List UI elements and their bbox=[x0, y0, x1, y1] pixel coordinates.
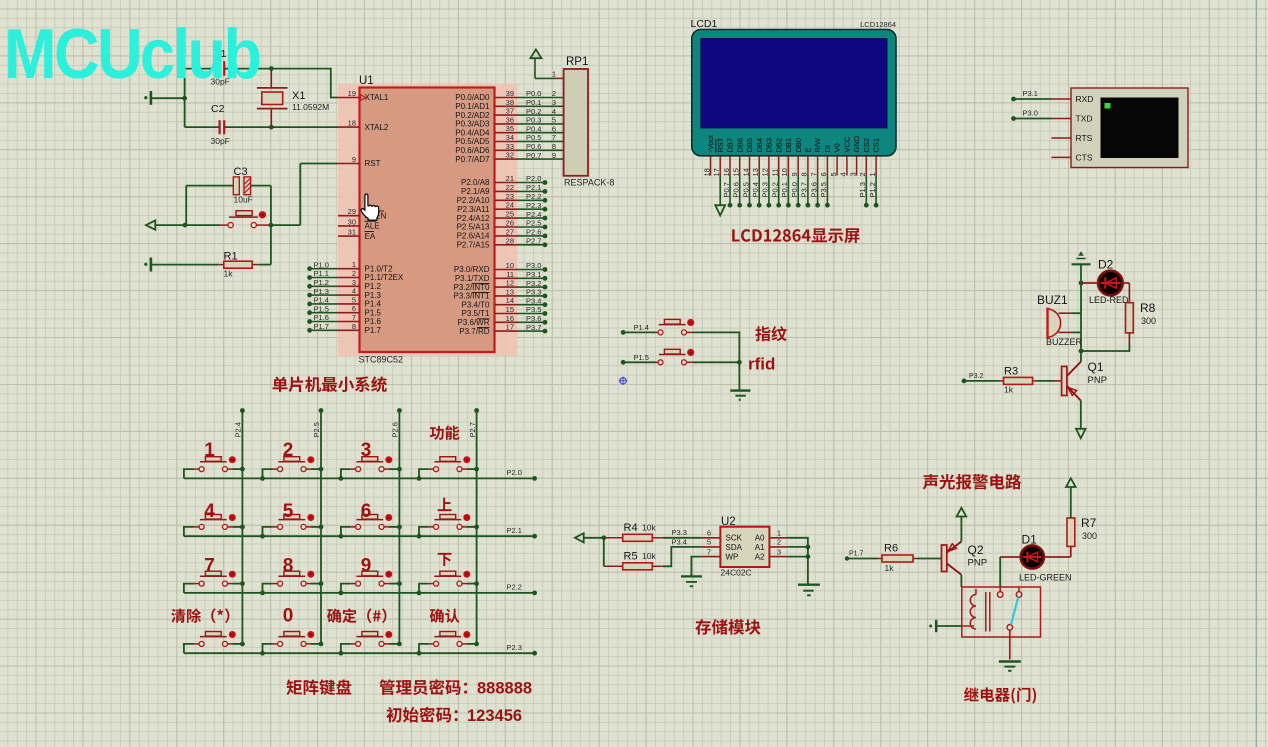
svg-text:P0.1: P0.1 bbox=[526, 98, 541, 107]
svg-text:LED-RED: LED-RED bbox=[1089, 295, 1129, 305]
svg-text:1: 1 bbox=[552, 70, 556, 79]
node bbox=[319, 581, 324, 586]
power flag bbox=[1066, 478, 1076, 487]
mcu U1 body bbox=[360, 88, 495, 353]
svg-text:WP: WP bbox=[726, 553, 739, 562]
svg-text:DB5: DB5 bbox=[745, 138, 754, 153]
node bbox=[1079, 281, 1084, 286]
label bbox=[964, 687, 1036, 703]
svg-text:P1.7: P1.7 bbox=[314, 322, 329, 331]
node bbox=[260, 651, 265, 656]
svg-text:P0.7: P0.7 bbox=[526, 151, 541, 160]
wire bbox=[694, 332, 740, 362]
arrow terminal bbox=[146, 220, 155, 229]
wire bbox=[389, 643, 399, 645]
svg-text:P3.5: P3.5 bbox=[526, 305, 541, 314]
svg-text:30: 30 bbox=[348, 217, 356, 226]
svg-text:8: 8 bbox=[352, 322, 356, 331]
node bbox=[339, 651, 344, 656]
wire bbox=[184, 527, 194, 536]
label bbox=[273, 376, 387, 392]
button key 4 bbox=[194, 526, 199, 528]
svg-text:DB3: DB3 bbox=[765, 138, 774, 153]
svg-text:P2.0: P2.0 bbox=[526, 174, 541, 183]
svg-text:1: 1 bbox=[352, 260, 356, 269]
svg-text:rfid: rfid bbox=[748, 355, 775, 374]
wire bbox=[184, 477, 535, 479]
button key 1 bbox=[194, 468, 199, 470]
button fingerprint bbox=[656, 331, 658, 333]
svg-text:24: 24 bbox=[506, 201, 514, 210]
svg-text:R/W: R/W bbox=[813, 137, 822, 153]
wire bbox=[738, 362, 740, 390]
svg-text:6: 6 bbox=[352, 304, 356, 313]
svg-text:28: 28 bbox=[506, 236, 514, 245]
label bbox=[386, 707, 457, 723]
svg-text:2: 2 bbox=[777, 538, 781, 547]
node bbox=[269, 125, 274, 130]
wire bbox=[1044, 556, 1071, 558]
svg-text:P2.7/A15: P2.7/A15 bbox=[457, 241, 490, 250]
svg-text:P1.4: P1.4 bbox=[634, 323, 649, 332]
svg-text:P0.0: P0.0 bbox=[526, 89, 541, 98]
svg-text:P3.6/WR: P3.6/WR bbox=[457, 318, 489, 327]
wire bbox=[185, 68, 219, 70]
wire bbox=[320, 411, 322, 644]
svg-text:3: 3 bbox=[848, 172, 857, 176]
svg-text:DB4: DB4 bbox=[755, 138, 764, 153]
svg-text:14: 14 bbox=[506, 296, 514, 305]
svg-text:P0.5: P0.5 bbox=[741, 182, 750, 197]
svg-text:9: 9 bbox=[361, 556, 372, 577]
wire bbox=[389, 526, 399, 528]
resistor R7 bbox=[1067, 518, 1075, 546]
wire bbox=[311, 583, 321, 585]
capacitor C1 bbox=[219, 61, 221, 75]
resistor R8 bbox=[1126, 303, 1134, 333]
svg-text:P0.4: P0.4 bbox=[751, 182, 760, 197]
wire bbox=[185, 186, 187, 226]
wire bbox=[603, 538, 605, 567]
svg-text:RESPACK-8: RESPACK-8 bbox=[564, 178, 614, 188]
svg-text:VCC: VCC bbox=[843, 136, 852, 152]
node bbox=[182, 96, 187, 101]
node bbox=[474, 525, 479, 530]
svg-text:SDA: SDA bbox=[726, 543, 743, 552]
svg-text:12: 12 bbox=[761, 168, 770, 176]
svg-text:27: 27 bbox=[506, 227, 514, 236]
svg-text:P1.5: P1.5 bbox=[634, 353, 649, 362]
svg-text:P3.6: P3.6 bbox=[526, 314, 541, 323]
svg-text:5: 5 bbox=[352, 295, 356, 304]
svg-text:A1: A1 bbox=[755, 543, 765, 552]
node bbox=[319, 525, 324, 530]
svg-text:P0.3: P0.3 bbox=[761, 182, 770, 197]
svg-text:35: 35 bbox=[506, 124, 514, 133]
svg-text:16: 16 bbox=[506, 314, 514, 323]
svg-text:32: 32 bbox=[506, 151, 514, 160]
capacitor C2 bbox=[219, 120, 221, 134]
wire bbox=[623, 331, 655, 333]
resistor R6 bbox=[878, 558, 882, 560]
svg-text:P0.2/AD2: P0.2/AD2 bbox=[455, 111, 490, 120]
svg-text:P3.2: P3.2 bbox=[526, 279, 541, 288]
svg-text:P3.1: P3.1 bbox=[1023, 89, 1038, 98]
svg-text:P2.5/A13: P2.5/A13 bbox=[457, 223, 490, 232]
svg-text:P0.5: P0.5 bbox=[526, 133, 541, 142]
svg-text:X1: X1 bbox=[292, 90, 305, 102]
label bbox=[430, 609, 460, 623]
svg-text:2: 2 bbox=[283, 440, 294, 461]
svg-text:V0: V0 bbox=[833, 143, 842, 152]
svg-text:R7: R7 bbox=[1081, 516, 1097, 530]
node bbox=[339, 476, 344, 481]
led D1 bbox=[1021, 545, 1044, 568]
svg-text:0: 0 bbox=[283, 606, 294, 627]
svg-text:25: 25 bbox=[506, 210, 514, 219]
svg-text:17: 17 bbox=[712, 168, 721, 176]
svg-text:P1.4: P1.4 bbox=[365, 300, 382, 309]
wire bbox=[584, 537, 604, 539]
wire bbox=[467, 468, 477, 470]
svg-text:RST: RST bbox=[716, 137, 725, 152]
svg-text:P1.0: P1.0 bbox=[314, 260, 329, 269]
svg-text:E: E bbox=[804, 147, 813, 152]
wire bbox=[419, 584, 429, 593]
node bbox=[319, 408, 324, 413]
svg-text:888888: 888888 bbox=[477, 680, 532, 698]
svg-text:-Vout: -Vout bbox=[706, 134, 715, 152]
ground bbox=[715, 205, 725, 215]
node bbox=[260, 591, 265, 596]
svg-text:6: 6 bbox=[707, 529, 711, 538]
label bbox=[286, 679, 351, 695]
wire bbox=[311, 468, 321, 470]
svg-text:11: 11 bbox=[506, 270, 514, 279]
node bbox=[417, 591, 422, 596]
wire bbox=[233, 583, 243, 585]
button key 6 bbox=[351, 526, 356, 528]
svg-text:P2.7: P2.7 bbox=[526, 237, 541, 246]
wire bbox=[271, 224, 300, 226]
node bbox=[806, 554, 811, 559]
svg-text:P3.6: P3.6 bbox=[809, 182, 818, 197]
wire bbox=[1123, 282, 1130, 284]
node bbox=[532, 651, 537, 656]
svg-text:U1: U1 bbox=[359, 75, 374, 87]
svg-text:DB7: DB7 bbox=[726, 138, 735, 153]
ground bbox=[730, 389, 750, 391]
svg-text:CS2: CS2 bbox=[862, 138, 871, 153]
svg-text:P2.2: P2.2 bbox=[507, 583, 522, 592]
node bbox=[339, 591, 344, 596]
svg-text:P2.0: P2.0 bbox=[507, 468, 522, 477]
svg-text:P3.4/T0: P3.4/T0 bbox=[461, 300, 490, 309]
svg-text:BUZ1: BUZ1 bbox=[1037, 293, 1068, 307]
node bbox=[260, 476, 265, 481]
svg-text:STC89C52: STC89C52 bbox=[359, 355, 404, 365]
ground bbox=[798, 584, 820, 586]
svg-text:P1.7: P1.7 bbox=[849, 551, 864, 558]
transistor Q2 bbox=[942, 545, 947, 572]
arrow terminal bbox=[575, 533, 584, 542]
svg-text:P2.5: P2.5 bbox=[312, 422, 321, 437]
svg-text:P1.2: P1.2 bbox=[365, 282, 382, 291]
svg-text:P0.7: P0.7 bbox=[722, 182, 731, 197]
svg-text:P3.0: P3.0 bbox=[1023, 109, 1038, 118]
svg-text:P2.2/A10: P2.2/A10 bbox=[457, 196, 490, 205]
label bbox=[732, 228, 859, 243]
svg-text:P2.4: P2.4 bbox=[526, 210, 541, 219]
svg-text:R8: R8 bbox=[1140, 301, 1156, 315]
node bbox=[474, 642, 479, 647]
svg-text:P2.6/A14: P2.6/A14 bbox=[457, 232, 490, 241]
svg-text:R5: R5 bbox=[624, 551, 638, 563]
svg-text:P3.0/RXD: P3.0/RXD bbox=[454, 265, 490, 274]
svg-text:8: 8 bbox=[283, 556, 294, 577]
svg-text:RXD: RXD bbox=[1076, 94, 1094, 104]
svg-text:39: 39 bbox=[506, 89, 514, 98]
relay RL1 bbox=[962, 587, 1041, 637]
node bbox=[397, 408, 402, 413]
node bbox=[474, 408, 479, 413]
wire bbox=[1009, 630, 1011, 659]
svg-text:P1.2: P1.2 bbox=[314, 278, 329, 287]
svg-text:P0.1/AD1: P0.1/AD1 bbox=[455, 102, 490, 111]
svg-text:4: 4 bbox=[204, 501, 215, 522]
svg-text:P1.1: P1.1 bbox=[314, 269, 329, 278]
button key 7 bbox=[194, 583, 199, 585]
window edge bbox=[1255, 0, 1257, 747]
button key 上 bbox=[429, 526, 434, 528]
svg-text:Q1: Q1 bbox=[1088, 360, 1104, 374]
wire bbox=[233, 526, 243, 528]
svg-text:13: 13 bbox=[506, 287, 514, 296]
wire bbox=[694, 361, 740, 363]
svg-text:C2: C2 bbox=[211, 103, 225, 115]
wire bbox=[1000, 556, 1020, 558]
wire bbox=[184, 652, 535, 654]
svg-text:P1.7: P1.7 bbox=[365, 326, 382, 335]
button key 9 bbox=[351, 583, 356, 585]
label bbox=[171, 608, 229, 623]
respack RP1 bbox=[564, 69, 588, 176]
svg-text:P3.3: P3.3 bbox=[672, 528, 687, 537]
wire bbox=[918, 558, 942, 560]
wire bbox=[263, 584, 273, 593]
svg-text:P0.5/AD5: P0.5/AD5 bbox=[455, 137, 490, 146]
svg-text:R1: R1 bbox=[224, 251, 238, 263]
node bbox=[397, 467, 402, 472]
wire bbox=[341, 527, 351, 536]
svg-text:EA: EA bbox=[365, 232, 376, 241]
button key 功能 bbox=[429, 468, 434, 470]
node bbox=[397, 525, 402, 530]
svg-text:P0.2: P0.2 bbox=[526, 107, 541, 116]
svg-text:P0.0: P0.0 bbox=[790, 182, 799, 197]
svg-text:5: 5 bbox=[829, 172, 838, 176]
svg-text:1k: 1k bbox=[224, 269, 234, 279]
svg-text:P2.4/A12: P2.4/A12 bbox=[457, 214, 490, 223]
node bbox=[240, 408, 245, 413]
svg-text:P0.6: P0.6 bbox=[526, 142, 541, 151]
svg-text:4: 4 bbox=[352, 287, 356, 296]
svg-text:P1.6: P1.6 bbox=[314, 313, 329, 322]
svg-text:P2.7: P2.7 bbox=[468, 422, 477, 437]
resistor R4 bbox=[604, 537, 623, 539]
node bbox=[474, 467, 479, 472]
svg-text:P3.0: P3.0 bbox=[526, 261, 541, 270]
svg-text:14: 14 bbox=[741, 168, 750, 176]
svg-text:8: 8 bbox=[552, 142, 556, 151]
svg-text:P2.6: P2.6 bbox=[391, 422, 400, 437]
svg-text:21: 21 bbox=[506, 174, 514, 183]
node bbox=[532, 534, 537, 539]
ground bbox=[929, 625, 932, 628]
svg-text:P3.2: P3.2 bbox=[969, 373, 984, 380]
wire bbox=[467, 583, 477, 585]
node bbox=[737, 360, 742, 365]
led D2 bbox=[1098, 271, 1123, 296]
svg-text:4: 4 bbox=[839, 172, 848, 176]
node bbox=[269, 66, 274, 71]
svg-text:P1.3: P1.3 bbox=[314, 287, 329, 296]
label bbox=[695, 619, 760, 635]
wire bbox=[476, 411, 478, 644]
svg-text:22: 22 bbox=[506, 183, 514, 192]
svg-text:D2: D2 bbox=[1098, 258, 1114, 272]
node bbox=[474, 581, 479, 586]
button key 确认 bbox=[429, 643, 434, 645]
svg-text:10: 10 bbox=[506, 261, 514, 270]
svg-text:15: 15 bbox=[732, 168, 741, 176]
svg-text:P1.6: P1.6 bbox=[365, 317, 382, 326]
svg-text:10uF: 10uF bbox=[234, 195, 253, 205]
svg-text:P2.3: P2.3 bbox=[507, 643, 522, 652]
wire bbox=[300, 164, 338, 226]
wire bbox=[311, 643, 321, 645]
node bbox=[260, 534, 265, 539]
wire bbox=[233, 468, 243, 470]
wire bbox=[847, 558, 878, 560]
svg-text:7: 7 bbox=[352, 313, 356, 322]
svg-text:4: 4 bbox=[552, 107, 556, 116]
svg-text:RTS: RTS bbox=[1076, 133, 1093, 143]
svg-text:R3: R3 bbox=[1004, 366, 1018, 378]
node bbox=[417, 534, 422, 539]
node bbox=[621, 360, 626, 365]
svg-text:R6: R6 bbox=[884, 543, 898, 555]
svg-text:7: 7 bbox=[204, 556, 215, 577]
node bbox=[183, 223, 188, 228]
svg-text:123456: 123456 bbox=[467, 707, 522, 725]
node bbox=[240, 467, 245, 472]
svg-text:P1.4: P1.4 bbox=[314, 296, 329, 305]
wire bbox=[184, 644, 194, 653]
svg-text:A0: A0 bbox=[755, 534, 765, 543]
svg-text:34: 34 bbox=[506, 133, 514, 142]
wire bbox=[1014, 118, 1052, 120]
svg-text:30pF: 30pF bbox=[211, 136, 230, 146]
wire bbox=[185, 126, 219, 128]
svg-text:3: 3 bbox=[552, 98, 556, 107]
wire bbox=[1080, 264, 1082, 351]
svg-text:CTS: CTS bbox=[1076, 152, 1093, 162]
label bbox=[327, 608, 386, 623]
svg-text:5: 5 bbox=[283, 501, 294, 522]
transistor Q1 bbox=[1080, 351, 1082, 362]
cursor bbox=[361, 194, 379, 220]
svg-text:R4: R4 bbox=[624, 522, 638, 534]
svg-text:LCD1: LCD1 bbox=[691, 18, 718, 30]
wire bbox=[184, 69, 186, 128]
wire bbox=[663, 547, 701, 566]
svg-text:26: 26 bbox=[506, 219, 514, 228]
svg-text:MCUclub: MCUclub bbox=[4, 15, 260, 94]
ground bbox=[999, 660, 1021, 662]
wire bbox=[787, 538, 808, 585]
resistor R5 bbox=[604, 565, 623, 567]
svg-text:P2.0/A8: P2.0/A8 bbox=[461, 178, 490, 187]
crystal X1 bbox=[270, 70, 272, 88]
svg-text:18: 18 bbox=[348, 119, 356, 128]
svg-text:P1.3: P1.3 bbox=[858, 182, 867, 197]
svg-text:P0.6: P0.6 bbox=[732, 182, 741, 197]
svg-text:17: 17 bbox=[506, 323, 514, 332]
svg-text:P0.4/AD4: P0.4/AD4 bbox=[455, 128, 490, 137]
svg-text:LCD12864: LCD12864 bbox=[860, 20, 896, 29]
svg-text:P2.2: P2.2 bbox=[526, 192, 541, 201]
svg-text:10k: 10k bbox=[642, 523, 656, 533]
svg-text:U2: U2 bbox=[721, 516, 736, 528]
svg-text:P2.3/A11: P2.3/A11 bbox=[457, 205, 490, 214]
button key 清除(*) bbox=[194, 643, 199, 645]
svg-text:P3.2/INT0: P3.2/INT0 bbox=[453, 283, 490, 292]
svg-text:2: 2 bbox=[352, 269, 356, 278]
wire bbox=[270, 186, 272, 265]
svg-text:5: 5 bbox=[707, 538, 711, 547]
svg-text:24C02C: 24C02C bbox=[721, 568, 752, 578]
svg-text:3: 3 bbox=[361, 440, 372, 461]
svg-text:DB1: DB1 bbox=[784, 138, 793, 153]
button RESET bbox=[220, 224, 228, 226]
mcu U1 highlight bbox=[338, 84, 518, 357]
svg-text:TXD: TXD bbox=[1076, 114, 1093, 124]
wire bbox=[1014, 98, 1052, 100]
svg-text:33: 33 bbox=[506, 142, 514, 151]
svg-text:P3.3: P3.3 bbox=[526, 288, 541, 297]
mcu U1 pins bbox=[338, 97, 360, 99]
svg-text:23: 23 bbox=[506, 192, 514, 201]
svg-text:1k: 1k bbox=[1004, 385, 1014, 395]
svg-text:DB2: DB2 bbox=[774, 138, 783, 153]
svg-text:SCK: SCK bbox=[726, 534, 743, 543]
resistor R3 bbox=[1000, 380, 1004, 382]
wire bbox=[389, 468, 399, 470]
label bbox=[379, 679, 467, 695]
svg-text:P3.7: P3.7 bbox=[526, 323, 541, 332]
svg-text:38: 38 bbox=[506, 98, 514, 107]
wire bbox=[623, 361, 655, 363]
wire bbox=[225, 126, 338, 128]
svg-text:9: 9 bbox=[352, 155, 356, 164]
svg-text:P0.4: P0.4 bbox=[526, 124, 541, 133]
svg-text:P1.3: P1.3 bbox=[365, 291, 382, 300]
node bbox=[417, 476, 422, 481]
ground arrow bbox=[1076, 429, 1086, 439]
button key 下 bbox=[429, 583, 434, 585]
svg-text:9: 9 bbox=[552, 151, 556, 160]
